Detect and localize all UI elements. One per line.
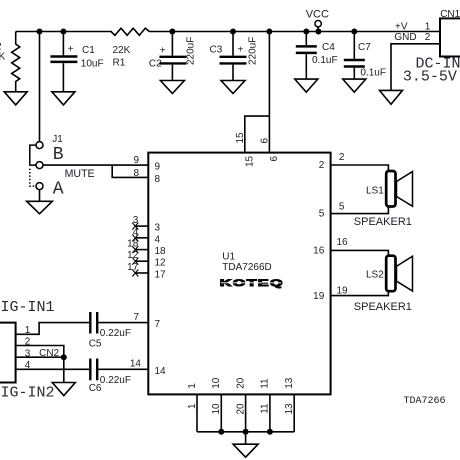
svg-text:5: 5 <box>319 209 325 220</box>
svg-text:8: 8 <box>155 174 161 185</box>
wire CN2 pin4 to C6 <box>16 368 89 370</box>
svg-text:SIG-IN2: SIG-IN2 <box>0 384 55 401</box>
svg-text:20: 20 <box>235 403 246 415</box>
svg-text:12: 12 <box>155 258 167 269</box>
svg-text:CN1: CN1 <box>440 9 460 20</box>
node bus/pin10 <box>218 429 224 435</box>
pin 4 no-connect stub <box>135 237 148 239</box>
wire bottom pin 11 <box>269 394 271 431</box>
svg-text:10: 10 <box>211 403 222 415</box>
wire bottom pin 20 <box>245 394 247 431</box>
svg-text:17: 17 <box>127 262 139 273</box>
ground (below C7) <box>343 79 366 92</box>
svg-text:J1: J1 <box>52 134 63 145</box>
svg-text:15: 15 <box>235 132 246 144</box>
node rail/VCC junction <box>315 29 321 35</box>
wire bottom pin 1 <box>196 394 198 431</box>
wire pin 19 to speaker LS2 bottom <box>331 291 389 295</box>
node bus/pin20 <box>243 429 249 435</box>
svg-text:0.22uF: 0.22uF <box>100 328 131 339</box>
svg-text:13: 13 <box>284 403 295 415</box>
wire pin 15 stub and link <box>245 116 270 153</box>
wire CN2 pin3 <box>16 356 64 358</box>
svg-text:5: 5 <box>339 201 345 212</box>
svg-text:+: + <box>68 44 74 55</box>
resistor R1 (22K horizontal) <box>111 28 149 35</box>
wire CN2 pin2 <box>16 346 64 383</box>
node CN2 pin3/gnd junction <box>61 354 67 360</box>
svg-text:15: 15 <box>244 155 255 167</box>
svg-text:14: 14 <box>155 366 167 377</box>
pin 18 no-connect stub <box>135 249 148 251</box>
svg-text:1: 1 <box>25 325 31 336</box>
svg-text:2: 2 <box>25 337 31 348</box>
power VCC symbol <box>317 27 319 32</box>
ground (below C2) <box>160 81 184 94</box>
svg-text:C2: C2 <box>149 58 162 69</box>
svg-text:4: 4 <box>133 227 139 238</box>
svg-text:6: 6 <box>269 155 280 161</box>
svg-text:2: 2 <box>319 160 325 171</box>
svg-text:VCC: VCC <box>306 9 329 21</box>
node rail/C2 junction <box>169 29 175 35</box>
svg-text:10uF: 10uF <box>81 58 104 69</box>
speaker LS1 <box>386 171 395 207</box>
svg-text:LS1: LS1 <box>366 185 384 196</box>
connector CN1 box <box>440 18 460 56</box>
svg-text:19: 19 <box>313 291 325 302</box>
svg-text:1: 1 <box>187 403 198 409</box>
svg-text:16: 16 <box>337 237 349 248</box>
wire main VCC rail right part <box>149 31 440 33</box>
svg-text:14: 14 <box>130 359 142 370</box>
svg-text:TDA7266D: TDA7266D <box>222 262 271 273</box>
svg-text:3: 3 <box>25 348 31 359</box>
wire ground bus <box>197 431 294 433</box>
wire rail to pin 6 <box>268 32 270 153</box>
svg-text:0.1uF: 0.1uF <box>360 68 386 79</box>
svg-text:C5: C5 <box>89 338 102 349</box>
jumper J1 circle B <box>36 142 43 149</box>
capacitor C4 (0.1uF) <box>305 32 307 46</box>
node rail/J1 junction <box>37 29 43 35</box>
node rail/C4 junction <box>303 29 309 35</box>
svg-text:GND: GND <box>394 32 416 43</box>
svg-text:20: 20 <box>235 377 246 389</box>
svg-text:A: A <box>53 179 64 199</box>
wire bottom pin 10 <box>220 394 222 431</box>
svg-text:2: 2 <box>339 152 345 163</box>
jumper J1 circle A <box>36 183 43 190</box>
resistor R2 (left edge, vertical) <box>12 32 20 92</box>
svg-text:SIG-IN1: SIG-IN1 <box>0 299 55 316</box>
svg-text:11: 11 <box>260 378 271 389</box>
wire CN2 pin1 to C5 <box>16 323 89 335</box>
IC U1 box <box>148 153 330 395</box>
svg-text:+: + <box>160 46 166 57</box>
svg-text:4: 4 <box>25 360 31 371</box>
svg-text:SPEAKER1: SPEAKER1 <box>354 216 412 228</box>
svg-text:22K: 22K <box>113 45 131 56</box>
ground (bottom bus) <box>233 444 258 457</box>
svg-text:4: 4 <box>155 234 161 245</box>
node rail/pin6 junction <box>266 29 272 35</box>
svg-text:13: 13 <box>284 377 295 389</box>
node rail/C3 junction <box>230 29 236 35</box>
svg-text:SPEAKER1: SPEAKER1 <box>354 301 412 313</box>
svg-text:10: 10 <box>211 377 222 389</box>
logo KOTEQ <box>220 277 284 287</box>
ground (below J1 A) <box>27 201 53 214</box>
svg-text:16: 16 <box>313 245 325 256</box>
svg-text:11: 11 <box>260 403 271 414</box>
capacitor C7 (0.1uF) <box>353 32 355 59</box>
wire bottom pin 13 <box>293 394 295 431</box>
svg-text:19: 19 <box>337 286 349 297</box>
pin 3 no-connect stub <box>135 225 148 227</box>
svg-text:12: 12 <box>127 250 139 261</box>
svg-text:TDA7266: TDA7266 <box>404 396 446 407</box>
svg-text:3: 3 <box>133 215 139 226</box>
wire CN1 GND row <box>391 44 440 91</box>
node rail/C1 junction <box>60 29 66 35</box>
wire J1 A to ground <box>39 190 41 202</box>
wire rail to J1 <box>39 32 41 142</box>
svg-text:LS2: LS2 <box>366 270 384 281</box>
wire main VCC rail left part <box>16 31 112 33</box>
svg-text:6: 6 <box>259 138 270 144</box>
svg-text:2: 2 <box>425 32 431 43</box>
node bus/pin11 <box>267 429 273 435</box>
pin 17 no-connect stub <box>135 272 148 274</box>
connector CN2 box <box>0 323 16 383</box>
svg-text:8: 8 <box>133 168 139 179</box>
svg-text:18: 18 <box>155 246 167 257</box>
svg-text:3.5-5V: 3.5-5V <box>403 68 457 85</box>
jumper J1 circle common (MUTE) <box>36 162 43 169</box>
capacitor C6 (0.22uF) <box>89 359 91 381</box>
svg-text:R1: R1 <box>113 57 126 68</box>
wire bus to ground <box>245 432 247 444</box>
svg-text:1: 1 <box>187 383 198 389</box>
svg-text:U1: U1 <box>222 252 235 263</box>
svg-text:CN2: CN2 <box>39 348 59 359</box>
ground (below R2) <box>4 92 27 105</box>
wire pin 5 to speaker LS1 bottom <box>331 207 389 214</box>
svg-text:220uF: 220uF <box>186 37 197 65</box>
svg-text:9: 9 <box>133 155 139 166</box>
wire pin 16 to speaker LS2 top <box>331 250 389 255</box>
svg-text:1: 1 <box>425 21 431 32</box>
capacitor C3 (220uF polarized) <box>232 32 234 56</box>
svg-text:0.1uF: 0.1uF <box>312 55 338 66</box>
svg-text:C3: C3 <box>210 44 223 55</box>
svg-text:7: 7 <box>155 319 161 330</box>
wire C5 to pin 7 <box>98 322 148 324</box>
svg-text:220uF: 220uF <box>248 37 259 65</box>
svg-text:B: B <box>53 145 64 165</box>
pin 12 no-connect stub <box>135 260 148 262</box>
wire J1 solid link B to common <box>30 145 36 165</box>
wire J1 dashed link common to A <box>30 169 36 187</box>
ground (CN1 GND) <box>380 90 403 104</box>
svg-text:+: + <box>237 45 243 56</box>
ground (below C4) <box>295 79 318 92</box>
wire pin 2 to speaker LS1 top <box>331 165 389 171</box>
svg-text:7: 7 <box>133 312 139 323</box>
capacitor C2 (220uF polarized) <box>171 32 173 56</box>
capacitor C5 (0.22uF) <box>89 312 91 334</box>
wire MUTE to pin 9 <box>43 164 148 166</box>
svg-text:+V: +V <box>395 21 408 32</box>
svg-text:C4: C4 <box>322 42 335 53</box>
svg-text:18: 18 <box>127 239 139 250</box>
wire branch to pin 8 <box>112 165 148 177</box>
svg-text:3: 3 <box>155 223 161 234</box>
ground (below C1) <box>52 92 75 105</box>
ground (CN2) <box>52 383 75 396</box>
svg-text:17: 17 <box>155 270 167 281</box>
speaker LS2 <box>386 256 395 292</box>
ground (below C3) <box>221 81 245 94</box>
wire C6 to pin 14 <box>98 368 148 370</box>
capacitor C1 (10uF polarized) <box>62 32 64 56</box>
svg-text:C1: C1 <box>82 45 95 56</box>
svg-text:MUTE: MUTE <box>65 168 95 180</box>
svg-text:C7: C7 <box>358 42 371 53</box>
node rail/C7 junction <box>351 29 357 35</box>
svg-text:0.22uF: 0.22uF <box>100 375 131 386</box>
svg-text:K: K <box>0 51 6 62</box>
svg-text:9: 9 <box>155 161 161 172</box>
